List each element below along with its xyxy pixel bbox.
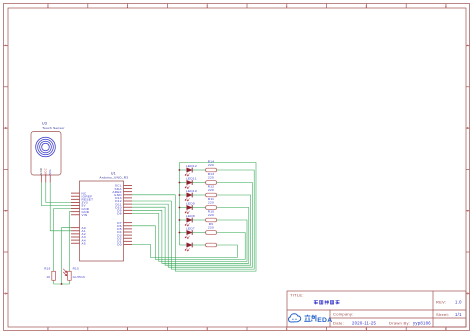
wire U3 GND to 5V row — [41, 183, 71, 206]
svg-text:1: 1 — [47, 327, 49, 331]
svg-text:REV:: REV: — [436, 300, 446, 305]
svg-text:2: 2 — [127, 327, 129, 331]
svg-text:1K: 1K — [46, 275, 50, 279]
svg-text:6: 6 — [445, 327, 447, 331]
svg-text:220: 220 — [208, 188, 214, 192]
LED LED7 — [179, 226, 195, 238]
svg-text:220: 220 — [208, 175, 214, 179]
resistor R10 220 — [192, 210, 216, 222]
svg-text:D0: D0 — [117, 243, 122, 247]
svg-text:R16: R16 — [44, 267, 50, 271]
LED LED (unlabeled row 7) — [179, 243, 192, 252]
touch sensor U3 — [31, 122, 65, 183]
wire R15 top to GND pin 2 — [69, 212, 71, 272]
svg-text:A: A — [5, 44, 7, 48]
svg-text:2: 2 — [127, 5, 129, 9]
title block — [287, 291, 466, 327]
svg-text:1/1: 1/1 — [455, 312, 462, 317]
svg-text:4: 4 — [286, 327, 288, 331]
svg-text:EDA: EDA — [317, 317, 332, 324]
LED LED9 — [179, 201, 195, 213]
svg-text:220: 220 — [208, 200, 214, 204]
resistor (unlabeled row 7) — [192, 243, 216, 247]
svg-text:LED8: LED8 — [186, 214, 195, 218]
wire R16 top to GND pin — [54, 209, 71, 272]
svg-text:1: 1 — [47, 5, 49, 9]
resistor R11 220 — [192, 197, 216, 209]
EasyEDA logo — [289, 314, 333, 324]
svg-text:yyp8186: yyp8186 — [413, 321, 431, 326]
wire U3 VCC to 3V3 — [46, 183, 71, 203]
LED LED10 — [179, 189, 197, 201]
svg-text:TITLE:: TITLE: — [290, 293, 304, 298]
svg-text:Drawn By:: Drawn By: — [389, 321, 410, 326]
wire pin loop row 7 — [132, 244, 237, 257]
svg-text:D: D — [5, 291, 7, 295]
svg-text:5: 5 — [366, 5, 368, 9]
svg-text:Arduino_UNO_R3: Arduino_UNO_R3 — [100, 176, 129, 180]
wire pin loop row 6 — [132, 226, 245, 260]
svg-text:3: 3 — [206, 327, 208, 331]
IC U1 Arduino_UNO_R3 — [71, 172, 132, 262]
svg-text:220: 220 — [208, 163, 214, 167]
wire pin loop row 3 — [132, 195, 251, 265]
wire pin loop row 5 — [132, 213, 247, 261]
svg-text:220: 220 — [208, 213, 214, 217]
svg-text:LED9: LED9 — [186, 201, 195, 205]
resistor R9 220 — [192, 222, 216, 234]
wire pin loop row 1 — [132, 170, 254, 269]
svg-text:GND: GND — [39, 168, 43, 175]
svg-text:5: 5 — [366, 327, 368, 331]
svg-text:A: A — [467, 44, 469, 48]
resistor R16 1K — [44, 267, 55, 281]
svg-text:LED10: LED10 — [186, 189, 197, 193]
svg-text:B: B — [467, 126, 469, 130]
wire GND loop to LED bus — [132, 163, 256, 272]
svg-text:LED12: LED12 — [186, 164, 197, 168]
resistor R13 220 — [192, 172, 216, 184]
svg-text:GL5516: GL5516 — [73, 275, 86, 279]
svg-text:6: 6 — [445, 5, 447, 9]
svg-text:Touch Sensor: Touch Sensor — [42, 126, 65, 130]
svg-text:B: B — [5, 126, 7, 130]
svg-text:VCC: VCC — [43, 168, 47, 175]
svg-text:A5: A5 — [82, 241, 86, 245]
svg-text:LED11: LED11 — [186, 176, 197, 180]
photoresistor R15 GL5516 — [63, 267, 85, 281]
svg-text:2020-11-25: 2020-11-25 — [352, 321, 376, 326]
svg-text:220: 220 — [208, 225, 214, 229]
resistor R12 220 — [192, 185, 216, 197]
svg-text:D8: D8 — [117, 212, 122, 216]
wire bottom node — [54, 280, 70, 284]
LED LED8 — [179, 214, 195, 226]
wire pin loop row 2 — [132, 183, 252, 268]
svg-text:3: 3 — [206, 5, 208, 9]
wire pin loop row 4 — [132, 208, 249, 264]
svg-text:LED7: LED7 — [186, 226, 195, 230]
svg-text:Date:: Date: — [333, 321, 344, 326]
junction divider bottom node — [61, 283, 63, 285]
sheet title (Chinese) — [314, 300, 340, 304]
svg-text:4: 4 — [286, 5, 288, 9]
svg-text:C: C — [467, 209, 469, 213]
svg-text:1.0: 1.0 — [455, 300, 462, 305]
svg-text:Company:: Company: — [333, 312, 354, 317]
wire divider node to A0 — [62, 228, 72, 284]
svg-text:Sheet:: Sheet: — [436, 312, 449, 317]
resistor R14 220 — [192, 160, 216, 172]
wire LED anode bus — [178, 163, 180, 246]
LED LED11 — [179, 176, 197, 188]
svg-text:VIN: VIN — [82, 213, 88, 217]
LED LED12 — [179, 164, 197, 176]
svg-text:C: C — [5, 209, 7, 213]
svg-text:SIG: SIG — [48, 169, 52, 175]
wire U3 SIG to A1 — [50, 183, 71, 231]
svg-text:D: D — [467, 291, 469, 295]
svg-text:R15: R15 — [73, 267, 79, 271]
